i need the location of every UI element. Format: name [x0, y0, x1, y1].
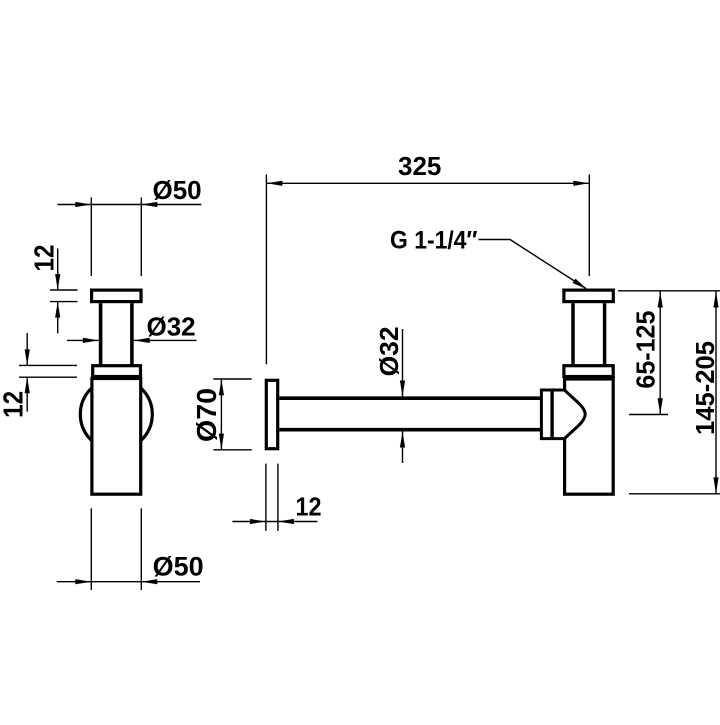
svg-text:145-205: 145-205 — [690, 341, 720, 435]
svg-text:12: 12 — [296, 492, 322, 522]
svg-text:12: 12 — [29, 245, 60, 272]
svg-text:G 1-1/4″: G 1-1/4″ — [390, 226, 478, 254]
svg-text:Ø50: Ø50 — [153, 552, 204, 582]
svg-text:Ø32: Ø32 — [374, 326, 404, 376]
svg-text:Ø70: Ø70 — [191, 388, 222, 442]
svg-text:12: 12 — [0, 391, 29, 418]
svg-text:Ø50: Ø50 — [153, 175, 202, 205]
svg-text:325: 325 — [398, 151, 441, 181]
svg-text:65-125: 65-125 — [631, 311, 661, 389]
svg-text:Ø32: Ø32 — [147, 311, 196, 341]
